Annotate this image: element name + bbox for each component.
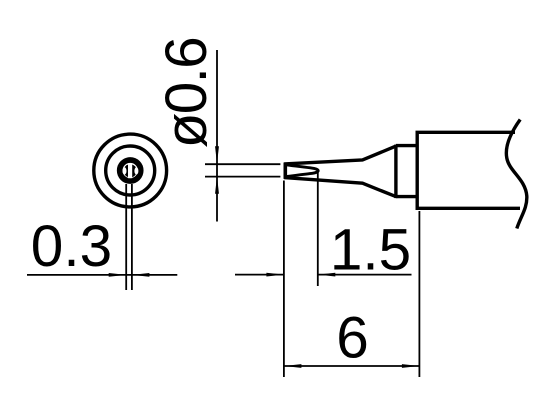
svg-text:ø0.6: ø0.6 [154, 36, 219, 148]
svg-text:1.5: 1.5 [330, 217, 411, 282]
svg-text:6: 6 [336, 305, 369, 370]
svg-text:0.3: 0.3 [31, 214, 112, 279]
